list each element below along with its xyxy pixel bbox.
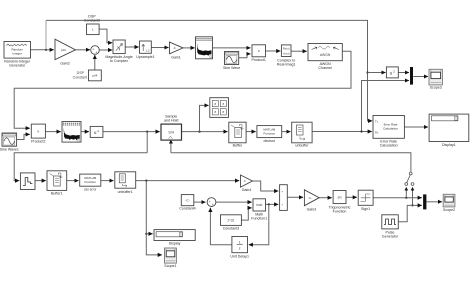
block pulse shaper bbox=[20, 173, 35, 190]
block Sine Wave1 bbox=[0, 133, 19, 152]
svg-text:+: + bbox=[281, 189, 283, 193]
svg-text:Gain3: Gain3 bbox=[307, 207, 317, 211]
constant DSP Constant2 bbox=[84, 14, 100, 34]
block Complex to Real-Imag bbox=[277, 45, 296, 66]
wire Gain2 to sum circle bbox=[76, 49, 91, 51]
wire DSP Constant2 to Magnitude-Angle top input bbox=[99, 29, 112, 43]
node junction clock tap to switch bbox=[405, 197, 407, 199]
block unbuffer bbox=[292, 122, 312, 147]
svg-text:unbuffer1: unbuffer1 bbox=[118, 190, 133, 194]
display Display1 bbox=[429, 114, 469, 147]
svg-text:u: u bbox=[390, 71, 393, 76]
svg-text:Display: Display bbox=[169, 242, 181, 246]
wire mux2 to Scope2 bbox=[427, 201, 443, 203]
scope Scope1 bbox=[164, 248, 176, 268]
svg-text:Display1: Display1 bbox=[442, 143, 456, 147]
node junction down to Display and Scope1 bbox=[145, 180, 147, 182]
svg-text:decisor: decisor bbox=[264, 139, 276, 143]
svg-text:+: + bbox=[209, 200, 211, 204]
svg-text:1: 1 bbox=[239, 240, 241, 244]
wire Constant3 to Math Function1 input 2 bbox=[241, 208, 251, 220]
block Sign1 bbox=[358, 190, 373, 211]
svg-text:Function: Function bbox=[264, 131, 276, 135]
wire switch output up to rail bbox=[410, 153, 412, 172]
block Math Function1 mod bbox=[251, 199, 267, 221]
wire sum circle to Math Function1 input 1 bbox=[216, 201, 252, 203]
node junction to clock chain bbox=[146, 131, 148, 133]
gain Gain3 bbox=[304, 190, 319, 212]
product Product1 bbox=[252, 45, 266, 62]
mux top right bbox=[410, 67, 413, 85]
wire mux to Scope3 bbox=[413, 76, 428, 78]
svg-text:K: K bbox=[244, 179, 246, 183]
block Random Integer Generator bbox=[4, 42, 31, 68]
svg-text:Scope1: Scope1 bbox=[164, 264, 176, 268]
wire junction up to matrix viewer bbox=[200, 105, 209, 131]
svg-text:Constant4: Constant4 bbox=[179, 207, 195, 211]
wire Gain1 to filter bbox=[183, 47, 195, 49]
svg-text:Gain1: Gain1 bbox=[171, 55, 181, 59]
svg-text:Sign1: Sign1 bbox=[361, 207, 370, 211]
svg-text:Integer: Integer bbox=[13, 51, 22, 55]
manual switch bbox=[405, 172, 414, 185]
wire junction to Display bbox=[146, 233, 152, 235]
block Sample and Hold bbox=[161, 115, 182, 141]
trigger arrowhead bbox=[169, 140, 173, 144]
wire junction down to long clock rail bbox=[146, 132, 148, 153]
wire pulse shaper to Buffer1 bbox=[35, 180, 46, 182]
svg-text:Buffer1: Buffer1 bbox=[51, 192, 63, 196]
wire squarer to Sample and Hold bbox=[103, 131, 160, 133]
svg-text:Buffer: Buffer bbox=[233, 144, 243, 148]
svg-text:S/H: S/H bbox=[168, 131, 174, 135]
constant DSP Constant pi/4 bbox=[73, 70, 102, 81]
svg-text:Real-Imag1: Real-Imag1 bbox=[277, 62, 296, 66]
sum circle bbox=[91, 46, 100, 55]
svg-text:unbuffer: unbuffer bbox=[295, 144, 309, 148]
svg-text:x: x bbox=[37, 129, 39, 134]
wire Constant4 to sum circle bbox=[194, 201, 206, 203]
wire Sine Wave1 to Product2 input 2 bbox=[17, 134, 30, 139]
gain Gain2 bbox=[55, 39, 76, 65]
wire AWGN down and back to Product2 input 1 bbox=[14, 51, 351, 128]
wire receive filter to squarer bbox=[81, 131, 89, 133]
wire Error Rate Calculation to Display1 bbox=[404, 126, 428, 128]
wire unbuffer1 to Gain4 bbox=[136, 180, 240, 182]
wire squarer to mux top input bbox=[398, 72, 409, 74]
svg-text:Generator: Generator bbox=[9, 63, 26, 67]
svg-text:-K-: -K- bbox=[308, 196, 312, 200]
block Sine Wave bbox=[223, 52, 240, 70]
wire decisor to unbuffer bbox=[282, 131, 291, 133]
wire unbuffer to Rx input bbox=[312, 131, 372, 133]
block receive filter FDATool bbox=[62, 122, 81, 143]
block Pulse Generator bbox=[382, 215, 399, 239]
svg-text:Generator: Generator bbox=[382, 234, 399, 238]
svg-text:Product1: Product1 bbox=[252, 58, 266, 62]
block Unit Delay1 bbox=[230, 237, 249, 259]
svg-text:Gain2: Gain2 bbox=[60, 61, 70, 65]
block Magnitude-Angle to Complex bbox=[105, 40, 132, 63]
mux bottom right bbox=[423, 194, 426, 209]
svg-text:Scope2: Scope2 bbox=[443, 208, 455, 212]
wire DSP Constant pi/4 up to sum circle bbox=[94, 55, 96, 70]
svg-text:cas error: cas error bbox=[84, 187, 98, 191]
wire Product1 to Complex to Real-Imag bbox=[266, 50, 281, 52]
svg-text:pi/2: pi/2 bbox=[61, 48, 66, 52]
svg-text:Constant: Constant bbox=[73, 75, 87, 79]
svg-text:Sine Wave: Sine Wave bbox=[223, 66, 240, 70]
block Error Rate Calculation bbox=[373, 116, 404, 148]
gain Gain1 bbox=[170, 42, 184, 59]
constant Constant3 bbox=[221, 215, 242, 231]
wire Math Function1 to sum input 2 bbox=[266, 203, 279, 205]
product Product2 bbox=[31, 124, 45, 144]
constant Constant4 bbox=[179, 195, 195, 211]
svg-text:Rx: Rx bbox=[375, 130, 379, 134]
svg-text:Im(u): Im(u) bbox=[283, 51, 290, 55]
node junction on pulse generator line bbox=[411, 204, 413, 206]
block AWGN Channel bbox=[308, 44, 342, 71]
block Trigonometric Function bbox=[329, 191, 351, 214]
block Upsample1 bbox=[136, 41, 154, 59]
svg-text:z: z bbox=[239, 247, 241, 251]
svg-text:Re(u): Re(u) bbox=[283, 47, 290, 51]
svg-text:2^32: 2^32 bbox=[227, 219, 234, 223]
svg-text:Function: Function bbox=[84, 180, 96, 184]
wire filter to Product1 input 1 bbox=[213, 47, 251, 49]
wire sum to Gain3 bbox=[287, 196, 303, 198]
wire Gain4 to sum input 1 bbox=[253, 181, 279, 191]
svg-text:Channel: Channel bbox=[318, 66, 332, 70]
svg-text:Gain4: Gain4 bbox=[242, 188, 252, 192]
svg-text:Product2: Product2 bbox=[31, 140, 45, 144]
node junction to matrix viewer bbox=[198, 131, 200, 133]
svg-text:Sine Wave1: Sine Wave1 bbox=[0, 148, 19, 152]
node branch at Random Integer output bbox=[45, 49, 47, 51]
block transmit filter FDATool bbox=[196, 37, 213, 59]
wire rx tap up to mux bottom input bbox=[362, 81, 410, 132]
scope Scope2 bbox=[443, 194, 455, 212]
svg-text:Calculation: Calculation bbox=[383, 127, 398, 131]
svg-text:Constant2: Constant2 bbox=[84, 19, 100, 23]
block unbuffer1 bbox=[115, 172, 136, 194]
svg-text:+: + bbox=[212, 203, 214, 207]
wire junction down rail bbox=[146, 181, 162, 255]
svg-text:-C-: -C- bbox=[185, 199, 189, 203]
block squarer u^2 top bbox=[386, 67, 398, 78]
wire Magnitude-Angle to Upsample1 bbox=[125, 46, 139, 48]
svg-text:Upsample1: Upsample1 bbox=[136, 55, 154, 59]
svg-text:to Complex: to Complex bbox=[110, 59, 128, 63]
svg-text:Scope3: Scope3 bbox=[430, 86, 442, 90]
wire Upsample1 to Gain1 bbox=[151, 47, 168, 49]
wire Complex to Real-Imag to AWGN bbox=[291, 50, 307, 52]
svg-text:AWGN: AWGN bbox=[320, 53, 331, 57]
svg-text:mod: mod bbox=[256, 203, 262, 207]
block MATLAB Function decisor bbox=[257, 126, 282, 143]
wire Pulse Generator to mux2 bottom input bbox=[398, 205, 422, 221]
svg-text:Unit Delay1: Unit Delay1 bbox=[230, 255, 249, 259]
wire Buffer1 to cas error bbox=[67, 180, 79, 182]
svg-text:and Hold: and Hold bbox=[164, 118, 178, 122]
scope matrix viewer bbox=[210, 98, 229, 118]
svg-text:+: + bbox=[281, 203, 283, 207]
svg-text:x: x bbox=[258, 48, 260, 53]
svg-text:+: + bbox=[95, 50, 97, 54]
wire Unit Delay1 to sum circle bottom bbox=[210, 208, 232, 245]
wire pulse generator line up into switch right contact bbox=[412, 189, 414, 206]
svg-text:u: u bbox=[94, 130, 97, 135]
wire Sine Wave to Product1 input 2 bbox=[239, 54, 251, 58]
node junction at Display bbox=[145, 233, 147, 235]
wire tap up into switch left contact bbox=[405, 189, 407, 198]
svg-text:+: + bbox=[92, 48, 94, 52]
node junction on Math Function1 output bbox=[268, 203, 270, 205]
wire sum circle to Magnitude-Angle bottom input bbox=[99, 49, 112, 51]
block Buffer bbox=[229, 122, 246, 147]
wire cas error to unbuffer1 bbox=[101, 180, 114, 182]
wire branch up to top rail bbox=[45, 20, 47, 49]
display Display bbox=[154, 230, 195, 246]
gain Gain4 bbox=[241, 175, 253, 192]
svg-text:Function1: Function1 bbox=[251, 216, 267, 220]
block MATLAB Function cas error bbox=[80, 174, 101, 191]
node junction for squarer tap bbox=[366, 71, 368, 73]
wire Trigonometric Function to Sign1 bbox=[346, 196, 357, 198]
wire Product2 to receive filter bbox=[45, 131, 60, 133]
svg-text:Constant3: Constant3 bbox=[223, 227, 239, 231]
svg-text:Function: Function bbox=[333, 210, 347, 214]
wire junction down to Unit Delay1 input bbox=[249, 204, 269, 244]
block Buffer1 bbox=[47, 171, 67, 196]
wire Sign1 to mux2 top input bbox=[373, 197, 422, 199]
svg-text:pi/4: pi/4 bbox=[92, 74, 97, 78]
wire Sample and Hold to Buffer bbox=[182, 131, 228, 133]
svg-text:sin: sin bbox=[337, 195, 341, 199]
svg-text:Calculation: Calculation bbox=[380, 144, 398, 148]
wire long rail left and down to pulse shaper bbox=[14, 153, 147, 181]
wire Gain3 to Trigonometric Function bbox=[319, 197, 332, 199]
sum block tall bbox=[280, 185, 288, 211]
block squarer u^2 bbox=[90, 126, 103, 137]
node junction rx tap bbox=[360, 130, 362, 132]
sum circle bottom bbox=[207, 198, 216, 207]
wire switch output rail to Sample and Hold trigger bbox=[171, 142, 412, 153]
wire Buffer to decisor bbox=[246, 131, 256, 133]
svg-text:1,2: 1,2 bbox=[145, 49, 150, 53]
wire Random Integer to Gain2 bbox=[31, 49, 54, 51]
wire tap to squarer block bbox=[368, 72, 386, 74]
scope Scope3 bbox=[429, 69, 442, 89]
wire top rail to Tx bbox=[46, 20, 372, 121]
svg-text:-K-: -K- bbox=[173, 46, 177, 50]
